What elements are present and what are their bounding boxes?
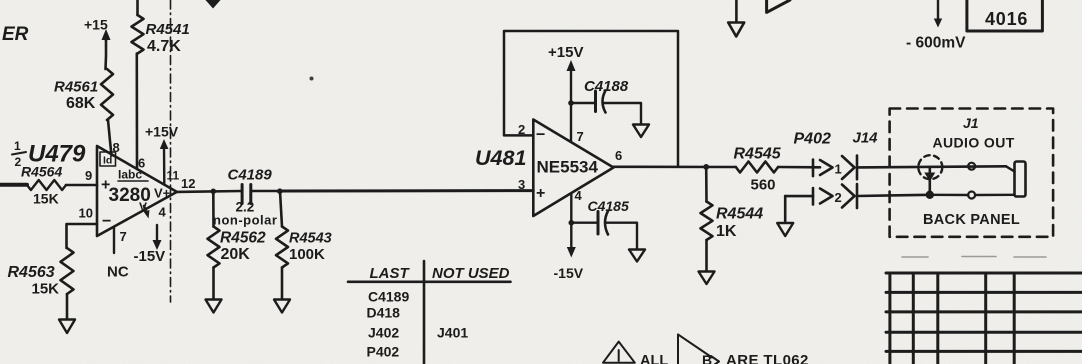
wire to contact 2	[930, 194, 969, 197]
pin 7 wire NC	[113, 227, 115, 253]
ground C4185	[629, 250, 645, 262]
note op-amp B triangle	[678, 334, 712, 364]
connector pin 1	[812, 160, 815, 177]
resistor R4545	[736, 162, 778, 173]
ground R4562	[206, 300, 222, 313]
ground R4543	[274, 300, 290, 313]
pin 4 wire -15V	[156, 225, 158, 242]
wire +15 to R4561	[104, 38, 107, 69]
wire U479 out to C4189	[177, 190, 242, 193]
feedback wire loop	[504, 31, 678, 167]
-600mV arrow	[937, 0, 939, 20]
wire R4544 to ground	[705, 240, 708, 271]
scan noise overlay	[0, 0, 1, 1]
capacitor C4185	[571, 221, 597, 223]
connector pin 2	[785, 195, 813, 198]
Id box	[100, 152, 116, 166]
junction node C4185	[569, 220, 575, 226]
resistor R4562	[208, 227, 220, 268]
ground R4544	[699, 272, 715, 285]
wire U481 output	[614, 166, 736, 169]
junction node R4543	[277, 188, 283, 194]
resistor R4561	[101, 69, 113, 120]
arrowhead stub (cut off at top)	[212, 1, 215, 3]
op-amp U479	[97, 146, 177, 236]
wire top feed to R4541	[136, 0, 139, 15]
resistor R4544	[701, 202, 713, 241]
wire pin1 into J1 box	[857, 166, 1006, 167]
note warning triangle 1	[603, 342, 635, 363]
wire pin2 into J1 box	[857, 195, 930, 196]
ground C4188	[633, 125, 649, 138]
box 4016	[967, 0, 1043, 31]
wire C4189 to junction	[251, 190, 280, 193]
wire R4543 to ground	[281, 268, 284, 300]
jack tip arrow	[928, 167, 931, 195]
contact circle 2	[968, 192, 975, 199]
wire R4562 to ground	[212, 268, 215, 300]
junction node C4188	[568, 100, 574, 106]
pin 4 wire	[570, 194, 572, 250]
wire pin 10 loop	[67, 224, 98, 248]
smudge marks above table	[902, 256, 1046, 259]
capacitor C4189	[241, 185, 244, 204]
ground P402 pin2	[777, 223, 793, 236]
junction node R4544	[703, 164, 709, 170]
ground top middle	[735, 0, 738, 22]
+15 arrow	[105, 33, 108, 40]
wire R4564 to pin 9	[66, 184, 97, 187]
contact circle 1	[968, 163, 975, 170]
jack J1 dashed circle	[918, 155, 942, 179]
speck	[310, 77, 314, 81]
wire R4541 to U479 pin 6	[136, 54, 139, 170]
wire C4189 to U481 pin 3	[280, 189, 533, 192]
resistor R4563	[61, 248, 74, 294]
ground R4563	[59, 320, 75, 334]
partial op-amp top right	[767, 0, 790, 12]
boundary dash-dot line	[170, 0, 172, 302]
junction node R4562	[211, 189, 217, 195]
wire R4563 to ground	[66, 294, 69, 319]
resistor R4541	[132, 15, 144, 54]
wire R4561 to U479 pin 8	[108, 120, 112, 156]
wire contact1 to jack body	[1006, 166, 1015, 171]
wire down to R4562	[212, 191, 215, 226]
jack body	[1015, 162, 1026, 197]
wire input left edge	[0, 183, 27, 187]
wire down to R4543	[280, 191, 282, 226]
wire pin2 ground drop	[784, 196, 787, 223]
capacitor C4188	[571, 102, 595, 104]
wire contact2 to jack body	[975, 194, 1015, 197]
wire down to R4544	[705, 167, 708, 202]
resistor R4543	[276, 227, 288, 268]
wire R4545 to connector	[778, 166, 820, 169]
junction node jack sleeve	[926, 191, 934, 199]
op-amp U481	[533, 120, 613, 217]
J1 dashed enclosure	[890, 109, 1054, 237]
parts table grid	[886, 273, 1082, 364]
